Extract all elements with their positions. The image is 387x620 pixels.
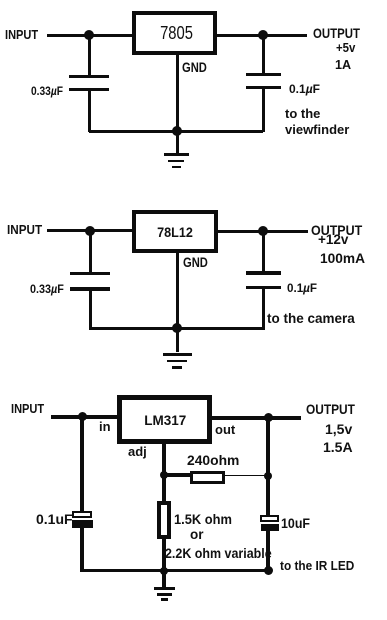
label 0.1uF (circuit 1) (289, 83, 320, 95)
resistor R1 240ohm body (190, 471, 225, 484)
capacitor C2 top plate (246, 73, 281, 77)
wire regulator to output (circuit 3) (212, 416, 302, 420)
wire ground bus (circuit 3) (80, 569, 270, 573)
node ground bus junction at C6 (264, 566, 273, 575)
capacitor C4 bottom plate (246, 286, 281, 289)
ground symbol (circuit 3) stub (162, 571, 166, 587)
label 0.1uF (circuit 2) (287, 282, 317, 294)
capacitor C4 bottom stub (262, 289, 265, 330)
wire ground bus (circuit 1) (89, 130, 263, 133)
ground symbol (circuit 3) bar2 (157, 593, 172, 596)
capacitor C6 10uF top plate (260, 515, 279, 522)
regulator U3 LM317 body (117, 395, 212, 444)
node input junction (circuit 2) (85, 226, 95, 236)
capacitor C6 10uF bottom plate (261, 524, 280, 532)
label OUTPUT (circuit 2) (311, 223, 362, 237)
label 1A (335, 58, 351, 71)
wire output rail down (266, 418, 270, 516)
capacitor C5 0.1uF top plate (72, 511, 92, 518)
capacitor C6 bottom stub (266, 531, 270, 572)
capacitor C5 0.1uF bottom plate (72, 520, 93, 528)
label 1,5v (325, 422, 352, 436)
ground symbol (circuit 2) bar1 (163, 353, 192, 356)
wire input rail down (80, 417, 84, 512)
ground symbol (circuit 1) bar3 (172, 166, 181, 169)
label 240ohm (187, 453, 239, 467)
label to the IR LED (280, 559, 354, 572)
wire adj to resistor R1 (164, 473, 191, 477)
wire input to regulator (circuit 3) (51, 415, 117, 419)
node adj junction (160, 471, 168, 479)
ground symbol (circuit 1) bar2 (168, 160, 184, 163)
label 2.2K ohm variable (165, 546, 272, 560)
node input junction (circuit 1) (84, 30, 94, 40)
label OUTPUT (circuit 1) (313, 26, 360, 40)
wire regulator to output (circuit 1) (217, 34, 307, 37)
label GND (circuit 1) (182, 60, 207, 74)
ground symbol (circuit 1) bar1 (164, 153, 189, 156)
pin adj wire upper (162, 444, 166, 501)
label 0.1uF (circuit 3) (36, 512, 73, 526)
pin GND wire (circuit 1) (176, 55, 179, 131)
label to the viewfinder (285, 106, 349, 139)
ground symbol (circuit 3) bar3 (161, 598, 168, 601)
wire regulator to output (circuit 2) (218, 230, 308, 233)
label 78L12 (136, 225, 213, 239)
label 0.33uF (circuit 1) (31, 85, 63, 97)
capacitor C5 bottom stub (80, 528, 84, 572)
label OUTPUT (circuit 3) (306, 402, 355, 416)
label in (99, 420, 111, 433)
ground symbol (circuit 1) stub (176, 131, 179, 153)
capacitor C2 0.1uF top stub (262, 35, 265, 73)
wire ground bus (circuit 2) (90, 327, 263, 330)
capacitor C3 0.33uF top stub (89, 231, 92, 272)
wire input to regulator (circuit 1) (47, 34, 132, 37)
resistor R2 1.5K body (157, 501, 171, 539)
label 1.5K ohm (174, 512, 232, 526)
capacitor C4 top plate (246, 271, 281, 275)
node output junction (circuit 2) (258, 226, 268, 236)
label INPUT (circuit 3) (11, 402, 44, 415)
capacitor C1 bottom stub (88, 91, 91, 132)
capacitor C1 top plate (69, 75, 109, 79)
node input junction (circuit 3) (78, 412, 87, 421)
wire input to regulator (circuit 2) (47, 229, 132, 232)
label adj (128, 445, 147, 458)
node ground junction (circuit 1) (172, 126, 182, 136)
pin GND wire (circuit 2) (176, 253, 179, 328)
wire resistor R2 to ground bus (162, 539, 166, 573)
node output junction (circuit 1) (258, 30, 268, 40)
ground symbol (circuit 2) bar3 (172, 366, 182, 369)
label out (215, 423, 235, 436)
capacitor C4 0.1uF top stub (262, 231, 265, 271)
capacitor C1 bottom plate (69, 88, 109, 91)
label 100mA (320, 251, 365, 265)
node ground junction (circuit 2) (172, 323, 182, 333)
capacitor C2 bottom plate (246, 86, 281, 89)
ground symbol (circuit 2) stub (176, 328, 179, 352)
label 1.5A (323, 440, 353, 454)
regulator U2 78L12 body (132, 210, 218, 253)
capacitor C3 bottom stub (89, 291, 92, 330)
capacitor C3 bottom plate (70, 287, 110, 291)
label 10uF (281, 517, 310, 531)
label or (190, 528, 204, 542)
label +5v (336, 41, 355, 54)
label INPUT (circuit 2) (7, 223, 42, 236)
node ground bus junction at R2 (160, 567, 168, 575)
wire resistor R1 to output rail (thin) (225, 475, 267, 477)
capacitor C2 bottom stub (262, 89, 265, 132)
label INPUT (circuit 1) (5, 28, 38, 41)
label to the camera (267, 312, 355, 326)
capacitor C1 0.33uF top stub (88, 35, 91, 75)
node rail junction at R1 (264, 472, 272, 480)
ground symbol (circuit 3) bar1 (154, 587, 176, 590)
label GND (circuit 2) (183, 255, 208, 269)
ground symbol (circuit 2) bar2 (167, 360, 187, 363)
label 7805 (142, 24, 212, 42)
label +12v (318, 233, 348, 247)
capacitor C3 top plate (70, 272, 110, 276)
label 0.33uF (circuit 2) (30, 283, 64, 295)
regulator U1 7805 body (132, 11, 217, 55)
label LM317 (118, 414, 213, 428)
node output junction (circuit 3) (264, 413, 273, 422)
